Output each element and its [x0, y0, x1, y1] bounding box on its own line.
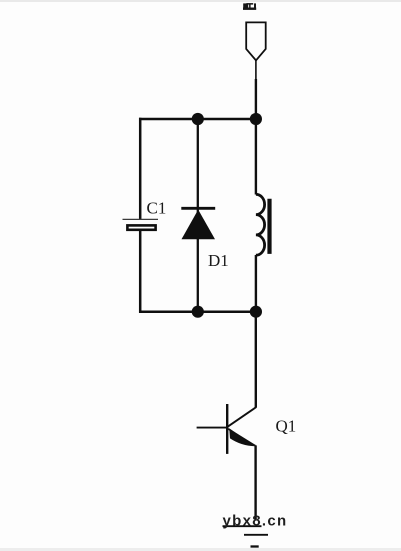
svg-text:ybx8.cn: ybx8.cn [223, 513, 288, 530]
svg-text:C1: C1 [147, 199, 167, 218]
svg-text:Q1: Q1 [276, 417, 297, 436]
svg-text:D1: D1 [208, 251, 229, 270]
